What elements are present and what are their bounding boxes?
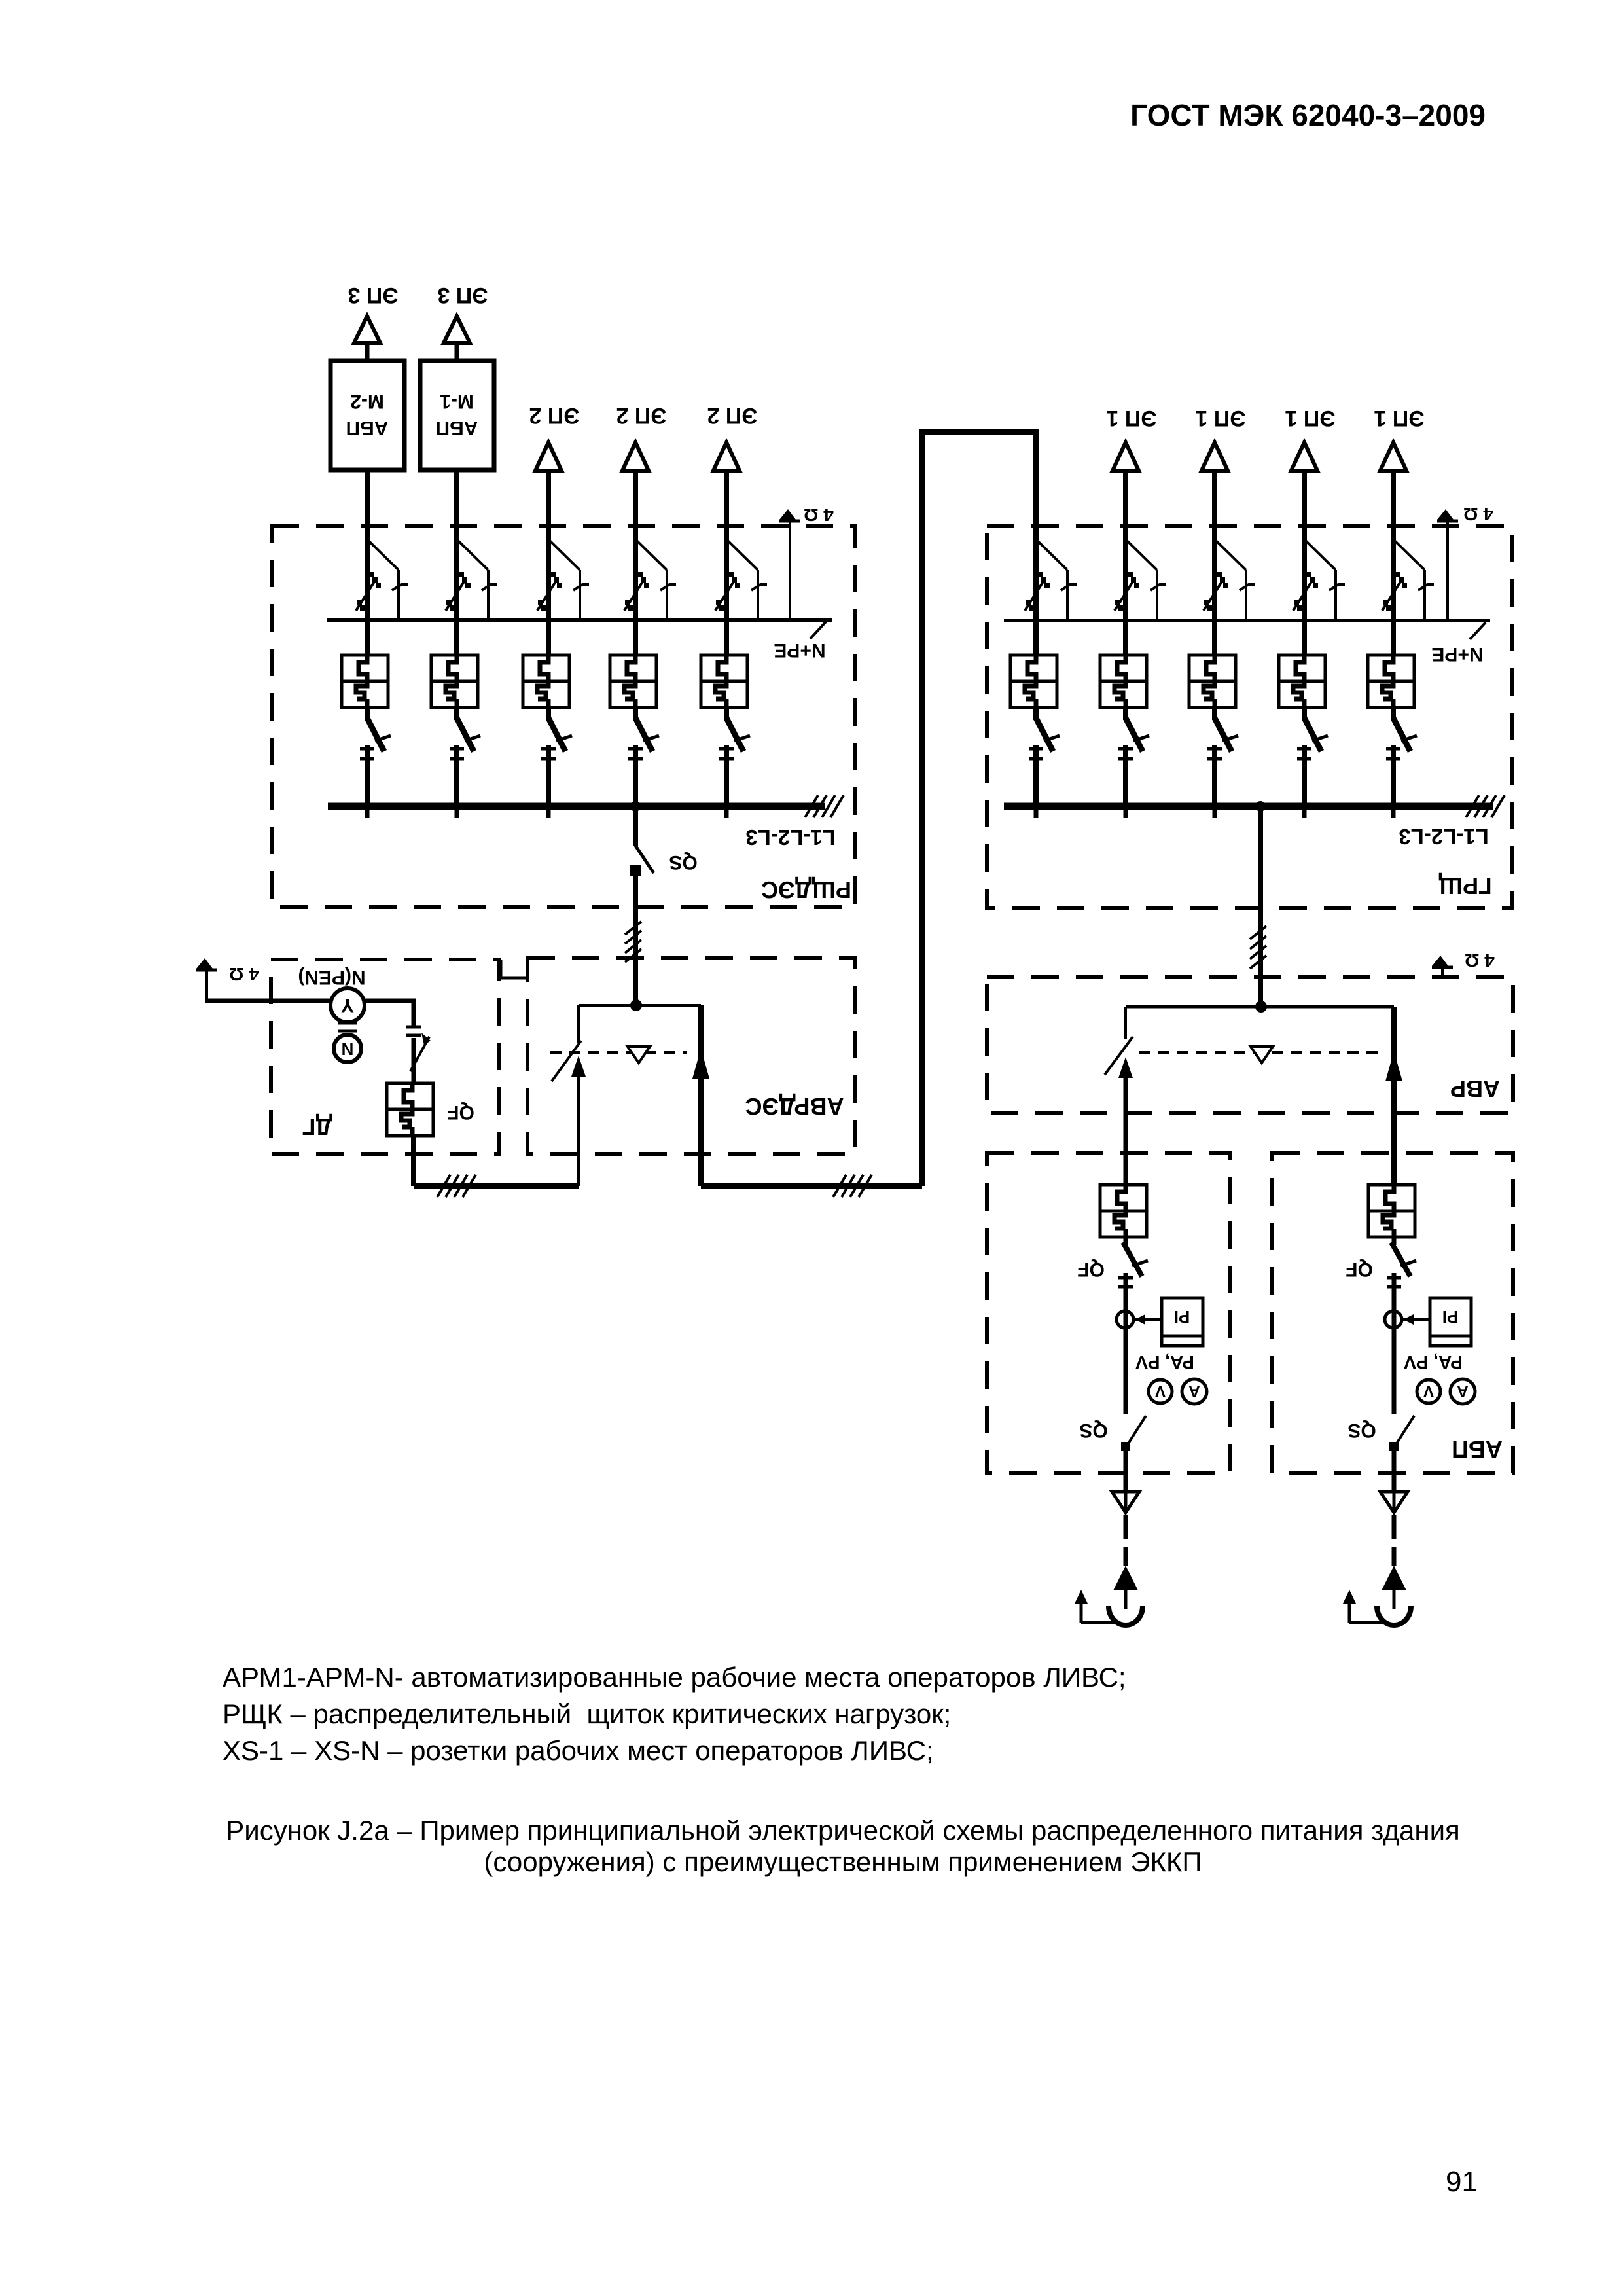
wire branch 3 ГРЩ to bus <box>1212 745 1217 806</box>
wire QS feeder upper <box>633 806 638 846</box>
energy meter PI box UPS right <box>1430 1298 1471 1346</box>
svg-text:ЭП 1: ЭП 1 <box>1107 406 1157 431</box>
cable marks UPS right <box>1387 1276 1401 1280</box>
circuit breaker branch 4 ГРЩ <box>1293 541 1345 619</box>
wire UPS right output 2 <box>1392 1515 1397 1539</box>
svg-text:V: V <box>1423 1382 1434 1400</box>
voltmeter PV UPS left <box>1149 1380 1172 1403</box>
wire АБП М-1 to arrow <box>455 343 459 361</box>
wire branch 5 РЩДЭС <box>724 471 729 655</box>
svg-text:АВР: АВР <box>1450 1075 1500 1102</box>
cable marks UPS left <box>1118 1276 1133 1280</box>
wire branch 1 ГРЩ below socket <box>1033 708 1039 720</box>
plug contact branch 5 РЩДЭС <box>719 718 750 759</box>
bus N+PE ГРЩ <box>1004 619 1490 622</box>
wire branch 1 ГРЩ to bus <box>1033 745 1039 806</box>
wire branch 1 РЩДЭС from АБП box <box>365 470 370 655</box>
svg-text:АБП: АБП <box>1452 1436 1503 1463</box>
bus stub branch 2 РЩДЭС <box>455 806 459 818</box>
svg-text:РЩК – распределительный щиток: РЩК – распределительный щиток критически… <box>223 1698 951 1729</box>
cable marks QS feeder <box>625 922 641 962</box>
svg-text:N+PE: N+PE <box>774 639 825 661</box>
svg-text:ЭП 1: ЭП 1 <box>1374 406 1425 431</box>
svg-text:PA, PV: PA, PV <box>1135 1352 1194 1372</box>
wire branch 3 below socket <box>546 708 551 720</box>
workplace connector АРМ UPS left <box>1109 1606 1143 1625</box>
output arrow down UPS left <box>1124 1490 1128 1513</box>
wire UPS right to workplace <box>1393 1590 1396 1609</box>
dashed jog between ДГ and АВРДЭС <box>499 960 503 978</box>
cable marks output right <box>833 1175 872 1197</box>
wire ДГ output down <box>411 1136 416 1186</box>
circuit breaker branch 2 ГРЩ <box>1115 541 1166 619</box>
svg-text:QF: QF <box>447 1102 474 1123</box>
svg-text:QS: QS <box>669 852 697 873</box>
arrow ЭП 3 (left) <box>354 316 380 343</box>
wire branch 1 to bus <box>365 745 370 806</box>
voltmeter PV UPS right <box>1417 1380 1440 1403</box>
box АБП М-1 <box>420 361 494 470</box>
arrow ЭП 3 (right) <box>444 316 470 343</box>
bus stub branch 4 ГРЩ <box>1302 806 1307 818</box>
transfer switch АВР right contact <box>1385 1007 1402 1185</box>
wire branch 5 to bus <box>724 745 729 806</box>
dashed enclosure UPS right (АБП) <box>1272 1153 1513 1473</box>
circuit breaker branch 4 РЩДЭС <box>624 541 676 619</box>
wire branch 4 to bus <box>633 745 638 806</box>
mechanical link АВР <box>1139 1051 1381 1054</box>
circuit breaker branch 1 РЩДЭС <box>356 541 408 619</box>
bus L1-L2-L3 ГРЩ <box>1004 803 1493 810</box>
ground electrode 4 Ohm АВР <box>1432 956 1453 967</box>
svg-text:ГРЩ: ГРЩ <box>1438 872 1491 899</box>
svg-text:L1-L2-L3: L1-L2-L3 <box>1399 825 1489 849</box>
svg-text:М-2: М-2 <box>350 391 384 412</box>
bus stub branch 3 РЩДЭС <box>546 806 551 818</box>
plug contact branch 1 ГРЩ <box>1029 718 1060 759</box>
socket XS branch 3 ГРЩ <box>1189 655 1236 708</box>
wire branch 1 below socket <box>365 708 370 720</box>
wire branch 5 ГРЩ <box>1391 471 1396 655</box>
wire CT to meter box UPS right <box>1402 1318 1430 1321</box>
circuit breaker branch 5 РЩДЭС <box>715 541 767 619</box>
transfer switch АВРДЭС left contact <box>552 1005 586 1186</box>
wire branch 4 ГРЩ <box>1302 471 1307 655</box>
socket XS branch 1 ГРЩ <box>1010 655 1057 708</box>
arrow ЭП 1 #1 <box>1113 442 1139 471</box>
bus end tick N+PE РЩДЭС <box>810 622 826 639</box>
arrow on CT wire UPS right <box>1403 1314 1414 1325</box>
svg-text:N(PEN): N(PEN) <box>298 967 365 988</box>
svg-text:АБП: АБП <box>346 417 389 439</box>
PE arrow АРМ UPS left <box>1075 1590 1115 1623</box>
node АВР input <box>1255 1001 1267 1013</box>
svg-text:A: A <box>1188 1382 1200 1400</box>
output arrow down UPS right <box>1393 1490 1396 1513</box>
svg-text:ЭП 2: ЭП 2 <box>707 403 758 428</box>
disconnector QS UPS left <box>1121 1416 1146 1451</box>
svg-text:ЭП 1: ЭП 1 <box>1196 406 1246 431</box>
svg-text:АРМ1-АРМ-N- автоматизированные: АРМ1-АРМ-N- автоматизированные рабочие м… <box>223 1662 1126 1693</box>
arrow ЭП 2 #3 <box>713 442 740 471</box>
generator ДГ stator circle <box>330 988 365 1022</box>
generator shaft coupling <box>338 1022 357 1025</box>
wire PEN to generator <box>207 999 330 1003</box>
wire UPS right below socket <box>1392 1237 1397 1245</box>
switch QF UPS left <box>1123 1242 1148 1276</box>
wire branch 2 РЩДЭС from АБП box <box>454 470 459 655</box>
wire branch 4 below socket <box>633 708 638 720</box>
bus N+PE РЩДЭС <box>327 618 832 622</box>
socket XS branch 2 ГРЩ <box>1100 655 1147 708</box>
link triangle АВРДЭС <box>628 1047 650 1063</box>
disconnector QS РЩДЭС <box>630 846 654 876</box>
wire branch 4 ГРЩ to bus <box>1302 745 1307 806</box>
svg-text:4 Ω: 4 Ω <box>1463 504 1493 524</box>
wire UPS left below socket <box>1124 1237 1128 1245</box>
bus end tick N+PE ГРЩ <box>1470 622 1486 639</box>
wire UPS left output <box>1124 1450 1128 1490</box>
bus stub branch 5 РЩДЭС <box>724 806 729 818</box>
dashed enclosure ДГ <box>271 960 499 1154</box>
bus stub branch 2 ГРЩ <box>1124 806 1128 818</box>
bus stub branch 1 РЩДЭС <box>365 806 370 818</box>
circuit breaker branch 3 РЩДЭС <box>537 541 589 619</box>
plug contact branch 2 ГРЩ <box>1118 718 1149 759</box>
plug contact branch 3 РЩДЭС <box>541 718 572 759</box>
arrow ЭП 1 #4 <box>1380 442 1406 471</box>
ground electrode 4 Ohm РЩДЭС wire <box>789 521 791 620</box>
svg-text:ЭП 1: ЭП 1 <box>1285 406 1336 431</box>
cable marks bus L1-L2-L3 РЩДЭС end <box>805 795 844 817</box>
ground electrode 4 Ohm ДГ wire <box>205 970 208 1003</box>
svg-text:PI: PI <box>1442 1307 1459 1327</box>
svg-text:XS-1 – XS-N – розетки рабочих: XS-1 – XS-N – розетки рабочих мест опера… <box>223 1735 934 1766</box>
ground electrode 4 Ohm РЩДЭС <box>779 509 800 521</box>
svg-text:4 Ω: 4 Ω <box>1465 950 1495 971</box>
wire UPS left output 2 <box>1124 1515 1128 1539</box>
wire АВР crossbar <box>1126 1005 1394 1009</box>
svg-text:ГОСТ МЭК 62040-3–2009: ГОСТ МЭК 62040-3–2009 <box>1130 98 1486 132</box>
circuit breaker branch 5 ГРЩ <box>1382 541 1434 619</box>
ground electrode 4 Ohm АВР wire <box>1441 967 1444 977</box>
socket XS UPS right <box>1368 1185 1415 1237</box>
svg-text:A: A <box>1457 1382 1468 1400</box>
wire UPS left to CT <box>1124 1273 1128 1414</box>
svg-text:V: V <box>1155 1382 1166 1400</box>
cable marks generator output <box>406 1026 421 1029</box>
svg-text:PI: PI <box>1174 1307 1190 1327</box>
svg-text:ЭП 2: ЭП 2 <box>616 403 667 428</box>
circuit breaker branch 1 ГРЩ <box>1025 541 1077 619</box>
svg-text:4 Ω: 4 Ω <box>229 964 259 984</box>
wire АВРДЭС output right <box>701 1183 922 1189</box>
bus L1-L2-L3 РЩДЭС <box>328 803 825 810</box>
ground electrode 4 Ohm ГРЩ <box>1437 509 1458 521</box>
switch QF ДГ <box>410 1033 431 1071</box>
cable marks output left <box>437 1175 476 1197</box>
wire generator output <box>365 1001 414 1026</box>
disconnector QS UPS right <box>1389 1416 1414 1451</box>
wire branch 2 ГРЩ below socket <box>1123 708 1128 720</box>
svg-text:QS: QS <box>1079 1420 1107 1441</box>
circuit breaker branch 3 ГРЩ <box>1204 541 1255 619</box>
plug contact branch 3 ГРЩ <box>1207 718 1238 759</box>
wire to QF ДГ <box>412 1038 416 1083</box>
wire branch 5 below socket <box>724 708 729 720</box>
arrow on CT wire UPS left <box>1135 1314 1145 1325</box>
arrow ЭП 1 #2 <box>1202 442 1228 471</box>
wire АБП М-2 to arrow <box>365 343 370 361</box>
dashed enclosure АВРДЭС <box>527 958 855 1154</box>
workplace connector АРМ UPS right <box>1377 1606 1411 1625</box>
wire АВРДЭС crossbar <box>579 1004 701 1007</box>
switch QF UPS right <box>1391 1242 1416 1276</box>
svg-text:(сооружения) с преимущественны: (сооружения) с преимущественным применен… <box>484 1846 1202 1877</box>
cable marks bus L1-L2-L3 ГРЩ end <box>1466 795 1505 817</box>
svg-text:L1-L2-L3: L1-L2-L3 <box>745 825 836 850</box>
socket XS branch 3 РЩДЭС <box>523 655 569 708</box>
svg-text:QS: QS <box>1347 1420 1376 1441</box>
wire branch 3 ГРЩ <box>1212 471 1217 655</box>
transfer switch АВРДЭС right contact <box>692 1005 709 1186</box>
socket XS UPS left <box>1100 1185 1147 1237</box>
wire branch 4 ГРЩ below socket <box>1302 708 1307 720</box>
mechanical link АВРДЭС <box>550 1051 687 1054</box>
ammeter PA UPS right <box>1450 1379 1475 1404</box>
node АВРДЭС input <box>630 999 642 1011</box>
output arrow head UPS left <box>1113 1566 1138 1590</box>
svg-text:ЭП 2: ЭП 2 <box>529 403 580 428</box>
svg-text:ЭП 3: ЭП 3 <box>438 283 488 308</box>
link triangle АВР <box>1251 1047 1273 1063</box>
socket XS branch 4 ГРЩ <box>1279 655 1325 708</box>
bus stub branch 5 ГРЩ <box>1391 806 1396 818</box>
energy meter PI box UPS left <box>1162 1298 1203 1346</box>
svg-text:РЩДЭС: РЩДЭС <box>761 876 851 903</box>
output arrow head UPS right <box>1382 1566 1406 1590</box>
riser wire АВРДЭС to ГРЩ <box>922 432 1036 1186</box>
svg-text:М-1: М-1 <box>440 391 474 412</box>
wire UPS right to CT <box>1392 1273 1397 1414</box>
cable marks ГРЩ feeder <box>1250 926 1266 969</box>
plug contact branch 4 ГРЩ <box>1297 718 1328 759</box>
ground electrode 4 Ohm ГРЩ wire <box>1446 521 1449 620</box>
plug contact branch 4 РЩДЭС <box>628 718 659 759</box>
current transformer UPS left <box>1116 1311 1133 1328</box>
svg-text:Рисунок J.2a – Пример принципи: Рисунок J.2a – Пример принципиальной эле… <box>226 1815 1460 1846</box>
svg-text:PA, PV: PA, PV <box>1404 1352 1463 1372</box>
dashed enclosure UPS left <box>987 1153 1230 1473</box>
plug contact branch 1 РЩДЭС <box>360 718 391 759</box>
PE arrow АРМ UPS right <box>1343 1590 1383 1623</box>
svg-text:ЭП 3: ЭП 3 <box>348 283 399 308</box>
wire branch 4 РЩДЭС <box>633 471 638 655</box>
arrow ЭП 1 #3 <box>1291 442 1317 471</box>
wire branch 2 ГРЩ to bus <box>1123 745 1128 806</box>
socket XS branch 5 РЩДЭС <box>701 655 747 708</box>
socket XS branch 5 ГРЩ <box>1368 655 1414 708</box>
plug contact branch 2 РЩДЭС <box>450 718 480 759</box>
svg-text:АВРДЭС: АВРДЭС <box>745 1093 844 1120</box>
box АБП М-2 <box>330 361 404 470</box>
dashed enclosure ГРЩ <box>987 526 1512 908</box>
svg-text:4 Ω: 4 Ω <box>804 505 834 525</box>
wire UPS left to workplace <box>1124 1590 1128 1609</box>
svg-text:N+PE: N+PE <box>1431 643 1483 665</box>
transfer switch АВР left contact <box>1105 1007 1133 1185</box>
svg-text:АБП: АБП <box>436 417 478 439</box>
wire branch 1 ГРЩ (from riser) <box>1033 432 1039 655</box>
wire UPS right output <box>1392 1450 1397 1490</box>
bus stub branch 1 ГРЩ <box>1034 806 1039 818</box>
ground electrode 4 Ohm ДГ <box>196 958 217 970</box>
wire QS feeder lower <box>633 876 638 1005</box>
wire branch 3 РЩДЭС <box>546 471 551 655</box>
bus stub branch 3 ГРЩ <box>1213 806 1217 818</box>
svg-text:ДГ: ДГ <box>302 1113 332 1140</box>
svg-text:Y: Y <box>341 994 354 1016</box>
socket XS branch 4 РЩДЭС <box>610 655 656 708</box>
wire branch 2 below socket <box>454 708 459 720</box>
wire branch 5 ГРЩ below socket <box>1391 708 1396 720</box>
wire branch 3 ГРЩ below socket <box>1212 708 1217 720</box>
wire АВРДЭС output left <box>414 1183 579 1189</box>
svg-text:N: N <box>342 1039 354 1059</box>
socket XS ДГ <box>387 1083 433 1136</box>
svg-text:QF: QF <box>1077 1259 1105 1280</box>
svg-text:91: 91 <box>1446 2166 1478 2198</box>
ammeter PA UPS left <box>1182 1379 1207 1404</box>
circuit breaker branch 2 РЩДЭС <box>446 541 497 619</box>
wire ГРЩ feeder to АВР <box>1258 806 1263 1007</box>
plug contact branch 5 ГРЩ <box>1386 718 1417 759</box>
dashed enclosure АВР <box>987 977 1513 1113</box>
wire branch 5 ГРЩ to bus <box>1391 745 1396 806</box>
arrow ЭП 2 #2 <box>622 442 649 471</box>
socket XS branch 1 РЩДЭС <box>342 655 388 708</box>
dashed enclosure РЩДЭС <box>272 526 855 907</box>
wire branch 2 ГРЩ <box>1123 471 1128 655</box>
arrow ЭП 2 #1 <box>535 442 562 471</box>
wire branch 3 to bus <box>546 745 551 806</box>
svg-text:QF: QF <box>1346 1259 1373 1280</box>
wire branch 2 to bus <box>454 745 459 806</box>
generator ДГ rotor circle <box>334 1035 361 1062</box>
socket XS branch 2 РЩДЭС <box>431 655 478 708</box>
current transformer UPS right <box>1385 1311 1402 1328</box>
wire CT to meter box UPS left <box>1133 1318 1162 1321</box>
